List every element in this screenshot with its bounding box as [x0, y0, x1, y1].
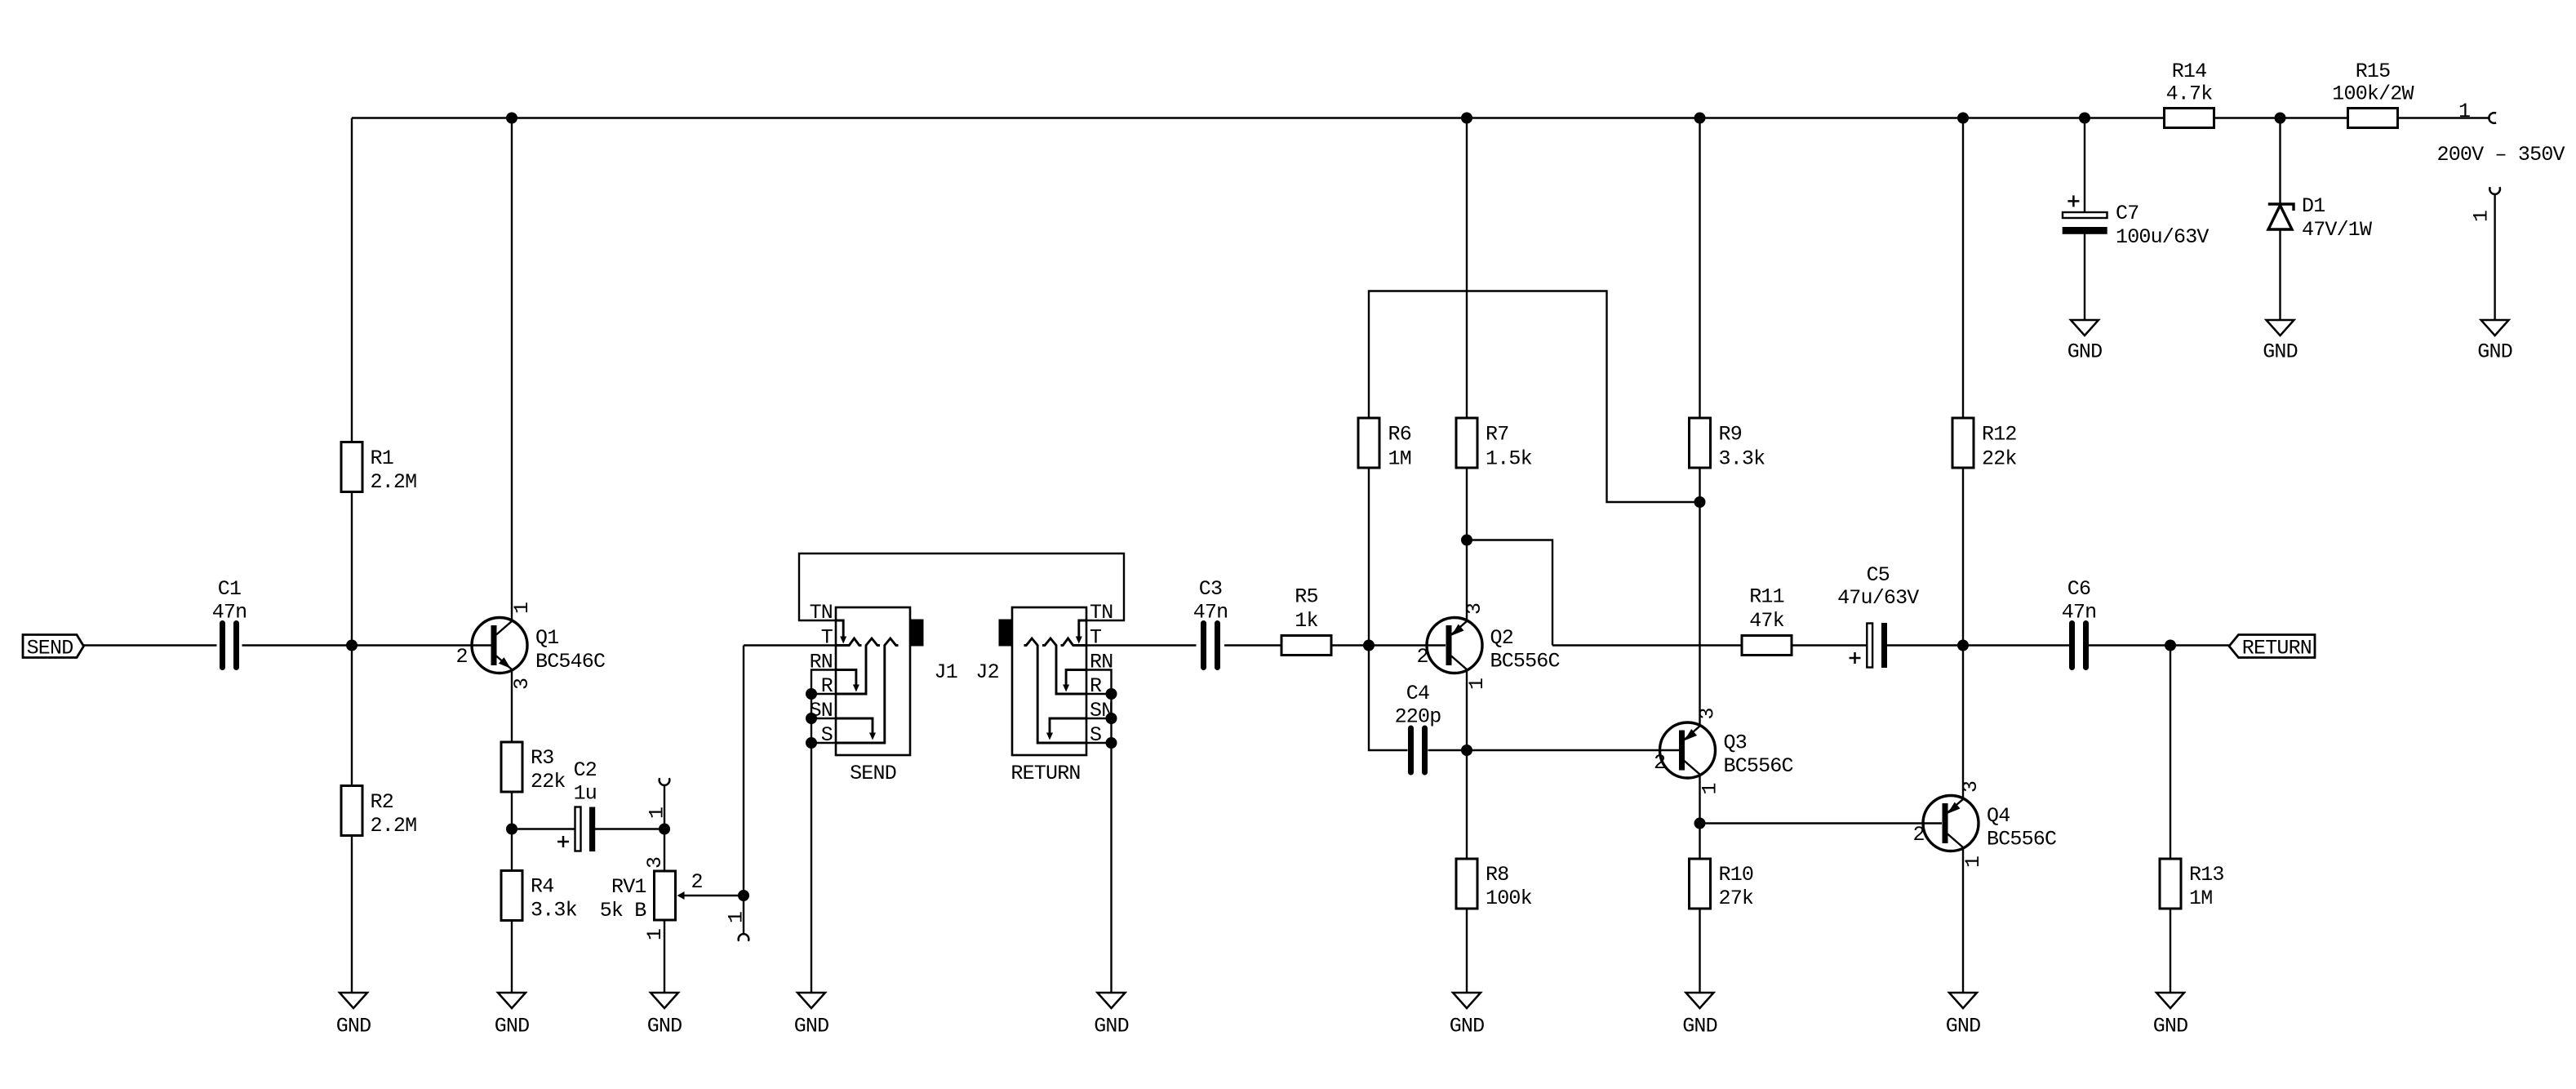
- junction at 2405,790.5: [1957, 640, 1969, 651]
- svg-text:T: T: [821, 626, 833, 650]
- svg-text:R6: R6: [1388, 423, 1411, 447]
- resistor R15: [2348, 109, 2398, 128]
- svg-text:2: 2: [1417, 645, 1428, 669]
- svg-text:GND: GND: [2263, 340, 2298, 364]
- flag RETURN output: [2229, 635, 2315, 658]
- svg-text:1: 1: [510, 602, 534, 614]
- resistor R7: [1456, 418, 1477, 468]
- svg-text:R8: R8: [1486, 863, 1508, 887]
- svg-text:1: 1: [725, 912, 748, 923]
- transistor Q1 BC546C NPN: [472, 618, 527, 673]
- svg-text:2: 2: [456, 645, 468, 669]
- ground GND at x=2659: [2156, 993, 2184, 1008]
- wire Q3 collector node to Q4 base: [1700, 822, 1943, 824]
- svg-text:3: 3: [1463, 603, 1486, 615]
- svg-text:GND: GND: [495, 1015, 530, 1038]
- capacitor C3: [1204, 624, 1218, 668]
- wire Q3 collector to R10 node: [1699, 776, 1700, 993]
- svg-text:22k: 22k: [1982, 447, 2017, 471]
- svg-text:C6: C6: [2067, 577, 2090, 601]
- svg-text:Q3: Q3: [1724, 731, 1747, 755]
- junction at 1797,661.5: [1461, 535, 1472, 546]
- svg-text:3.3k: 3.3k: [1719, 447, 1765, 471]
- wire R6 branch and feedback to R9 node: [1369, 291, 1700, 646]
- resistor R6: [1358, 418, 1379, 468]
- svg-text:C7: C7: [2116, 202, 2139, 225]
- wire C4 to Q3 base: [1428, 749, 1680, 751]
- wire C1 to Q1 base: [242, 644, 494, 646]
- svg-text:1M: 1M: [2189, 887, 2212, 910]
- ground GND at x=2405: [1949, 993, 1977, 1008]
- svg-text:22k: 22k: [531, 770, 566, 793]
- wire Q2 emitter pin: [1466, 540, 1468, 621]
- svg-text:RETURN: RETURN: [1010, 762, 1080, 785]
- wire J1 TN to J2 TN loop: [799, 553, 1124, 620]
- connector pin 1 at wiper node: [739, 934, 749, 941]
- svg-text:5k B: 5k B: [600, 899, 647, 922]
- junction at 1361.5,880: [1106, 713, 1117, 724]
- resistor R14: [2165, 109, 2214, 128]
- ground GND at x=994: [797, 993, 825, 1008]
- resistor R12: [1952, 418, 1974, 468]
- connector pin 1 HT supply input: [2489, 113, 2496, 123]
- svg-text:4.7k: 4.7k: [2166, 82, 2213, 106]
- svg-text:2: 2: [691, 870, 703, 894]
- svg-text:R9: R9: [1719, 423, 1742, 447]
- capacitor C5 polarized electrolytic: [1867, 624, 1872, 668]
- wire C6 to RETURN: [2089, 644, 2229, 646]
- junction at 2554,144.5: [2079, 113, 2090, 124]
- wire Q1 collector: [511, 118, 513, 621]
- wire R9 from rail to Q3 emitter: [1699, 118, 1700, 726]
- flag SEND input: [23, 635, 84, 658]
- svg-text:C5: C5: [1867, 563, 1890, 587]
- ground GND at x=3056.6: [2481, 320, 2509, 336]
- wire Q2 emitter loop to output row: [1467, 540, 1552, 646]
- svg-text:SN: SN: [810, 699, 833, 722]
- wire D1 from rail: [2279, 118, 2281, 205]
- svg-text:GND: GND: [1682, 1015, 1717, 1038]
- svg-text:Q1: Q1: [535, 626, 558, 650]
- svg-text:2: 2: [1913, 823, 1925, 847]
- svg-text:1: 1: [643, 929, 667, 940]
- junction at 2082.5,1008.5: [1694, 818, 1706, 829]
- ground GND at x=1361.5: [1098, 993, 1126, 1008]
- svg-text:1k: 1k: [1295, 609, 1317, 633]
- svg-text:R12: R12: [1982, 423, 2017, 447]
- wire Q4 collector to GND: [1962, 848, 1964, 993]
- svg-text:3: 3: [1696, 708, 1720, 719]
- wire Q4 emitter to output node: [1962, 646, 1964, 799]
- svg-text:1: 1: [1961, 856, 1985, 868]
- junction at 2793.5,144.5: [2275, 113, 2286, 124]
- svg-text:3: 3: [1959, 781, 1983, 793]
- junction at 994,910: [806, 737, 817, 749]
- wire J1 R stub: [811, 693, 836, 695]
- svg-text:GND: GND: [2067, 340, 2103, 364]
- svg-text:1u: 1u: [574, 782, 597, 806]
- svg-text:BC546C: BC546C: [535, 650, 605, 673]
- wire RV1 bottom to GND: [664, 920, 665, 993]
- resistor R13: [2160, 859, 2181, 909]
- wire J2 ground drop: [1110, 694, 1112, 993]
- svg-text:R11: R11: [1749, 585, 1784, 609]
- capacitor C6: [2072, 624, 2086, 668]
- svg-text:J1: J1: [935, 660, 957, 684]
- ground GND at x=2554: [2071, 320, 2099, 336]
- junction at 814,1015.5: [659, 824, 670, 835]
- svg-text:J2: J2: [975, 660, 998, 684]
- junction at 994,880: [806, 713, 817, 724]
- svg-text:1: 1: [646, 807, 669, 819]
- svg-text:T: T: [1090, 626, 1102, 650]
- ground GND at x=814: [651, 993, 678, 1008]
- svg-text:R: R: [1090, 674, 1102, 698]
- svg-text:R5: R5: [1295, 585, 1317, 609]
- svg-text:47k: 47k: [1749, 609, 1784, 633]
- svg-text:100k/2W: 100k/2W: [2332, 82, 2414, 106]
- wire C3 to R5 to Q2 base: [1224, 644, 1446, 646]
- resistor R10: [1690, 859, 1711, 909]
- resistor R5: [1281, 636, 1331, 656]
- svg-text:GND: GND: [1946, 1015, 1981, 1038]
- resistor R9: [1690, 418, 1711, 468]
- svg-text:GND: GND: [336, 1015, 371, 1038]
- svg-text:RN: RN: [810, 651, 833, 674]
- svg-text:R: R: [821, 674, 833, 698]
- svg-text:27k: 27k: [1719, 887, 1754, 910]
- svg-text:1: 1: [1465, 678, 1489, 690]
- svg-text:1: 1: [2458, 100, 2470, 123]
- junction at 1677,790.5: [1363, 640, 1375, 651]
- svg-text:R4: R4: [531, 875, 553, 899]
- svg-text:S: S: [821, 723, 833, 747]
- resistor R8: [1456, 859, 1477, 909]
- svg-text:3: 3: [643, 857, 667, 869]
- resistor R4: [501, 871, 522, 921]
- junction at 627,144.5: [506, 113, 517, 124]
- resistor R3: [501, 742, 522, 792]
- wire R1 branch vertical: [351, 118, 353, 993]
- junction at 1797,144.5: [1461, 113, 1472, 124]
- wire R7 from rail: [1466, 118, 1468, 540]
- ground GND at x=433: [340, 993, 367, 1008]
- svg-text:3: 3: [510, 678, 534, 690]
- capacitor C2 polarized: [575, 807, 581, 851]
- svg-text:1.5k: 1.5k: [1486, 447, 1532, 471]
- svg-text:GND: GND: [1450, 1015, 1485, 1038]
- svg-text:GND: GND: [794, 1015, 829, 1038]
- audio jack J1 SEND: [836, 607, 910, 755]
- wire RV1 wiper to node: [684, 895, 744, 896]
- svg-text:47n: 47n: [212, 601, 247, 625]
- svg-text:R10: R10: [1719, 863, 1754, 887]
- connector pin 1 at RV1 top node: [660, 778, 670, 785]
- svg-text:C3: C3: [1199, 577, 1222, 601]
- svg-text:TN: TN: [1090, 601, 1113, 625]
- svg-text:R3: R3: [531, 746, 553, 770]
- wire R3 R4 junction to C2: [512, 828, 575, 829]
- junction at 2082.5,144.5: [1694, 113, 1706, 124]
- svg-text:R1: R1: [371, 447, 393, 470]
- ground GND at x=2793.5: [2267, 320, 2294, 336]
- svg-text:47n: 47n: [1193, 601, 1228, 625]
- wire J1 SN stub: [811, 718, 836, 719]
- junction at 911,1097: [738, 890, 749, 901]
- junction at 2082.5,615: [1694, 496, 1706, 508]
- audio jack J2 RETURN: [1012, 607, 1086, 755]
- wire J2 RN loop: [1086, 670, 1112, 695]
- junction at 1361.5,910: [1106, 737, 1117, 749]
- svg-text:BC556C: BC556C: [1724, 754, 1793, 778]
- svg-text:100k: 100k: [1486, 887, 1532, 910]
- wire SEND to C1: [84, 644, 217, 646]
- wire top power rail: [352, 117, 2490, 118]
- zener diode D1 47V: [2268, 204, 2294, 211]
- wire GND connector drop: [2494, 194, 2495, 320]
- wire D1 anode to GND: [2279, 229, 2281, 320]
- svg-text:47n: 47n: [2062, 601, 2097, 625]
- svg-text:TN: TN: [810, 601, 833, 625]
- svg-text:1: 1: [2470, 211, 2494, 222]
- wire J2 S stub: [1086, 742, 1112, 744]
- svg-text:220p: 220p: [1395, 705, 1441, 729]
- connector pin 1 to GND: [2489, 187, 2500, 194]
- wire C5 to R12 node: [1887, 644, 2069, 646]
- wire J1 T stub: [744, 644, 836, 646]
- svg-text:GND: GND: [2153, 1015, 2188, 1038]
- wire R12 from rail: [1962, 118, 1964, 646]
- wire J2 SN stub: [1086, 718, 1112, 719]
- svg-text:RETURN: RETURN: [2242, 637, 2312, 660]
- svg-text:SEND: SEND: [850, 762, 896, 785]
- svg-text:BC556C: BC556C: [1987, 828, 2056, 851]
- junction at 431,790.5: [346, 640, 358, 651]
- wire J2 T to C3: [1086, 644, 1197, 646]
- wire Q2 collector down to R8 and GND: [1466, 670, 1468, 993]
- wire C7 to GND: [2084, 234, 2085, 321]
- svg-text:1: 1: [1699, 783, 1722, 794]
- svg-text:2.2M: 2.2M: [371, 470, 417, 494]
- wire J2 R stub: [1086, 693, 1112, 695]
- wire J1 ground drop: [811, 694, 812, 993]
- resistor R2: [341, 786, 362, 836]
- transistor Q2 BC556C PNP: [1427, 618, 1482, 673]
- wire C7 from rail: [2084, 118, 2085, 213]
- resistor R1: [341, 442, 362, 492]
- junction at 2659,790.5: [2165, 640, 2176, 651]
- capacitor C4: [1411, 728, 1425, 772]
- ground GND at x=627: [498, 993, 526, 1008]
- svg-text:SN: SN: [1090, 699, 1113, 722]
- ground GND at x=2082.5: [1686, 993, 1714, 1008]
- svg-text:GND: GND: [2477, 340, 2512, 364]
- svg-text:RN: RN: [1090, 651, 1113, 674]
- svg-text:47u/63V: 47u/63V: [1837, 586, 1919, 610]
- junction at 1361.5,850: [1106, 688, 1117, 700]
- potentiometer RV1 5k: [655, 871, 676, 920]
- capacitor C1: [223, 624, 237, 668]
- junction at 2405,144.5: [1957, 113, 1969, 124]
- svg-text:Q4: Q4: [1987, 804, 2010, 828]
- svg-text:C1: C1: [218, 577, 241, 601]
- svg-text:2.2M: 2.2M: [371, 814, 417, 838]
- ground GND at x=1797: [1453, 993, 1481, 1008]
- wire RV1 node to connector pin: [664, 785, 665, 871]
- junction at 994,850: [806, 688, 817, 700]
- wire output row to C5: [1552, 644, 1868, 646]
- svg-text:RV1: RV1: [611, 875, 646, 899]
- svg-text:C2: C2: [574, 758, 597, 782]
- junction at 627,1015.5: [506, 824, 517, 835]
- svg-text:S: S: [1090, 723, 1101, 747]
- wire C2 to RV1 node: [595, 828, 664, 829]
- transistor Q3 BC556C PNP: [1660, 722, 1716, 778]
- svg-text:R13: R13: [2189, 863, 2224, 887]
- wire J1 tip down to wiper node and connector: [743, 646, 744, 935]
- svg-text:1M: 1M: [1388, 447, 1411, 471]
- svg-text:SEND: SEND: [27, 637, 73, 660]
- svg-text:D1: D1: [2302, 194, 2325, 218]
- wire Q1 emitter to R3 R4 GND: [511, 670, 513, 993]
- svg-text:100u/63V: 100u/63V: [2116, 225, 2209, 249]
- svg-text:2: 2: [1654, 751, 1665, 775]
- transistor Q4 BC556C PNP: [1923, 796, 1979, 851]
- svg-text:200V – 350V: 200V – 350V: [2437, 143, 2565, 167]
- svg-text:R2: R2: [371, 790, 393, 814]
- svg-text:Q2: Q2: [1490, 626, 1513, 650]
- wire J1 S stub: [811, 742, 836, 744]
- svg-text:47V/1W: 47V/1W: [2302, 218, 2372, 242]
- svg-text:GND: GND: [647, 1015, 682, 1038]
- svg-text:3.3k: 3.3k: [531, 899, 577, 922]
- resistor R11: [1742, 636, 1792, 656]
- svg-text:BC556C: BC556C: [1490, 650, 1560, 673]
- svg-text:R14: R14: [2172, 60, 2207, 83]
- wire R13 branch: [2170, 646, 2171, 993]
- wire R6 node down to C4: [1369, 646, 1408, 751]
- wire J1 RN loop: [811, 670, 836, 695]
- junction at 1797,919: [1461, 745, 1472, 756]
- svg-text:C4: C4: [1406, 682, 1429, 705]
- capacitor C7 polarized electrolytic: [2063, 212, 2107, 218]
- svg-text:GND: GND: [1094, 1015, 1129, 1038]
- svg-text:R15: R15: [2356, 60, 2391, 83]
- svg-text:R7: R7: [1486, 423, 1508, 447]
